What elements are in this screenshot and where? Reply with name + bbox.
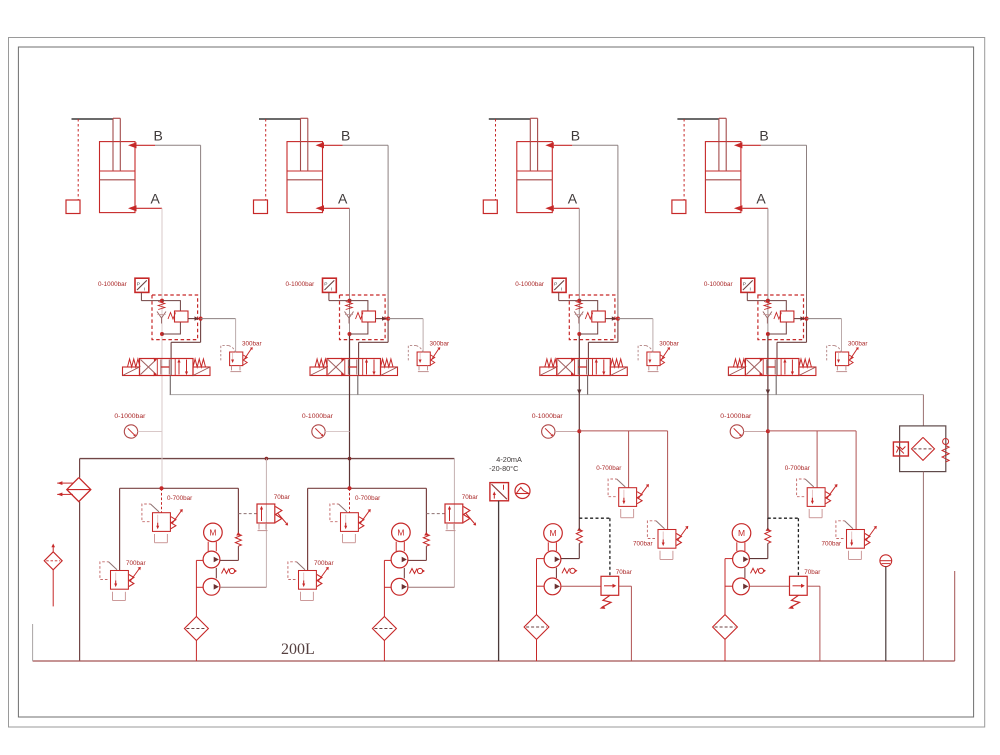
svg-text:300bar: 300bar (848, 340, 868, 347)
svg-text:300bar: 300bar (430, 340, 450, 347)
svg-text:300bar: 300bar (659, 340, 679, 347)
svg-text:700bar: 700bar (633, 541, 653, 548)
svg-text:B: B (154, 128, 163, 144)
svg-text:M: M (209, 528, 216, 538)
svg-text:0-700bar: 0-700bar (785, 465, 810, 472)
svg-text:A: A (756, 191, 766, 207)
svg-text:B: B (571, 128, 580, 144)
svg-text:M: M (738, 528, 745, 538)
svg-text:0-1000bar: 0-1000bar (98, 281, 127, 288)
svg-text:-20-80°C: -20-80°C (489, 464, 518, 473)
svg-text:70bar: 70bar (804, 569, 820, 576)
svg-text:I: I (331, 287, 332, 293)
svg-text:A: A (568, 191, 578, 207)
svg-text:A: A (151, 191, 161, 207)
svg-text:0-1000bar: 0-1000bar (720, 413, 752, 420)
svg-text:300bar: 300bar (242, 340, 262, 347)
svg-text:4-20mA: 4-20mA (496, 455, 522, 464)
svg-text:B: B (341, 128, 350, 144)
svg-text:P: P (554, 282, 557, 288)
svg-text:0-1000bar: 0-1000bar (704, 281, 733, 288)
svg-text:0-1000bar: 0-1000bar (286, 281, 315, 288)
svg-text:B: B (759, 128, 768, 144)
svg-text:700bar: 700bar (126, 560, 146, 567)
svg-text:70bar: 70bar (274, 494, 290, 501)
svg-text:0-700bar: 0-700bar (596, 465, 621, 472)
svg-text:70bar: 70bar (462, 494, 478, 501)
svg-text:0-1000bar: 0-1000bar (114, 413, 146, 420)
svg-text:700bar: 700bar (822, 541, 842, 548)
svg-text:M: M (397, 528, 404, 538)
svg-text:0-1000bar: 0-1000bar (515, 281, 544, 288)
svg-text:P: P (324, 282, 327, 288)
svg-text:0-1000bar: 0-1000bar (302, 413, 334, 420)
svg-text:P: P (137, 282, 140, 288)
svg-text:M: M (549, 528, 556, 538)
svg-text:200L: 200L (281, 641, 315, 658)
svg-text:A: A (338, 191, 348, 207)
svg-text:I: I (561, 287, 562, 293)
svg-text:700bar: 700bar (314, 560, 334, 567)
svg-text:P: P (743, 282, 746, 288)
svg-text:0-700bar: 0-700bar (167, 495, 192, 502)
svg-text:I: I (750, 287, 751, 293)
svg-text:0-1000bar: 0-1000bar (532, 413, 564, 420)
svg-text:0-700bar: 0-700bar (355, 495, 380, 502)
svg-text:70bar: 70bar (616, 569, 632, 576)
svg-text:I: I (144, 287, 145, 293)
